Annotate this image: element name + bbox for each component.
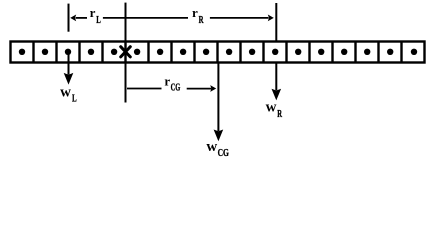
r_R arrow (right head) xyxy=(268,15,274,22)
r_L line right segment xyxy=(103,17,125,19)
r_R line left segment xyxy=(127,17,189,19)
r_R line right segment xyxy=(210,17,269,19)
w_CG arrow line xyxy=(217,63,219,131)
w_R arrow line below stick xyxy=(275,63,277,91)
svg-text:CG: CG xyxy=(171,81,181,93)
r_CG arrow (right head) xyxy=(210,85,216,92)
w_R arrowhead xyxy=(272,89,282,101)
meter stick cell separators xyxy=(34,42,402,63)
right position line above stick xyxy=(275,3,277,41)
pivot X mark xyxy=(121,47,131,57)
r_CG line left segment xyxy=(127,88,162,90)
svg-text:w: w xyxy=(206,139,217,155)
w_L arrow line xyxy=(68,50,70,75)
meter stick dots xyxy=(19,49,417,55)
svg-text:w: w xyxy=(266,99,277,115)
svg-text:R: R xyxy=(277,108,282,120)
r_L line left segment xyxy=(76,17,87,19)
svg-text:R: R xyxy=(199,14,205,26)
left position tick xyxy=(68,4,70,32)
w_CG arrowhead xyxy=(214,130,224,142)
svg-text:CG: CG xyxy=(218,147,230,159)
svg-text:L: L xyxy=(96,14,101,26)
svg-text:L: L xyxy=(72,93,77,105)
svg-text:r: r xyxy=(90,5,96,20)
svg-text:r: r xyxy=(192,5,198,20)
pivot vertical line xyxy=(125,3,127,103)
r_CG line right segment xyxy=(187,88,212,90)
w_L arrowhead xyxy=(64,73,74,85)
svg-text:w: w xyxy=(60,84,71,100)
r_L arrow (left head) xyxy=(70,15,76,22)
svg-text:r: r xyxy=(164,73,170,88)
meter stick outline xyxy=(11,42,425,63)
